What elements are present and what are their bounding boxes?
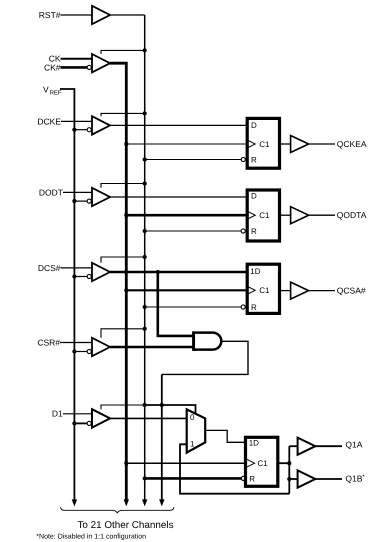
bubble DCS# ref input [87,274,91,278]
node junction RST/CSR#-top [143,327,147,331]
wire CSR# buffer top to RST net [101,329,145,338]
wire DODT buffer top to RST net [101,184,145,188]
wire DCKE buffer top to RST net [101,113,145,116]
wire AND output down to mux line [161,374,163,499]
svg-text:CSR#: CSR# [37,337,60,347]
AND gate G1 [192,331,195,350]
wire CK# input [61,66,88,69]
svg-text:1D: 1D [250,267,260,276]
bubble DODT ref input [87,199,91,203]
wire D1 buffer output to mux 0 input [110,417,187,419]
buffer U3 DCKE [92,116,110,134]
buffer U4 DODT [92,188,110,206]
svg-text:D1: D1 [52,409,63,419]
wire to QODTA label [309,214,335,216]
wire DCS# buffer top to RST net [101,257,145,263]
buffer U6 CSR# [92,338,110,356]
wire RST# buffer output to vertical [110,14,145,16]
svg-text:CK#: CK# [44,62,61,72]
wire to Q1A buffer [289,445,297,447]
svg-text:REF: REF [50,90,62,97]
wire RST net to mux top [145,405,196,414]
svg-text:D: D [251,192,257,201]
svg-text:R: R [251,156,257,165]
svg-text:Q1B*: Q1B* [345,473,365,483]
node junction RST/CK-top [143,48,147,52]
clock symbol FF1 [248,140,256,148]
node junction RST/DODT-top [143,181,147,185]
svg-text:To 21 Other Channels: To 21 Other Channels [77,520,173,531]
svg-text:1D: 1D [249,438,259,447]
node junction RST/DCS#-top [143,255,147,259]
node junction AND/mux select [160,403,164,407]
svg-text:C1: C1 [259,211,270,220]
svg-text:C1: C1 [259,286,270,295]
node VREF junction DCS# [72,274,76,278]
wire DCS# input [61,267,93,269]
buffer Q1B output [298,470,316,487]
bubble FF4 R input [241,476,245,480]
wire DODT buffer output to FF2 D [110,196,247,198]
wire DODT input [63,191,92,193]
svg-text:0: 0 [190,413,195,422]
wire DCKE input [61,120,92,122]
wire mux output to FF4 D [205,430,245,442]
wire D1 input [63,413,92,415]
wire FF1 output [280,143,291,145]
wire DCS# down to AND gate [158,272,194,336]
flip-flop FF4 Q1 [246,437,278,486]
wire RST to FF4 R [145,477,242,480]
arrowhead RST to other channels [142,499,147,506]
svg-text:Q1A: Q1A [345,440,362,450]
wire CK buffer output vertical clock net [110,63,126,499]
node Q junction [287,461,291,465]
svg-text:DCS#: DCS# [38,263,61,273]
buffer U5 DCS# [92,263,110,281]
wire CSR# buffer output to AND [110,346,194,349]
svg-text:R: R [249,475,255,484]
wire RST# input [61,14,93,16]
wire VREF to DCKE bubble [74,129,87,131]
bubble D1 ref input [87,421,91,425]
node VREF junction CSR# [72,349,76,353]
wire DCS# buffer output to FF3 D [110,271,247,274]
wire to Q1A label [315,445,342,447]
wire VREF vertical net [60,89,74,500]
svg-text:*Note: Disabled in 1:1 configu: *Note: Disabled in 1:1 configuration [36,532,146,540]
node VREF junction DODT [72,199,76,203]
bubble FF2 R input [241,229,245,233]
arrowhead VREF to other channels [72,499,77,506]
buffer U2 CK/CK# [92,54,110,72]
wire FF3 output [280,290,291,292]
svg-text:QCKEA: QCKEA [337,139,367,149]
bubble FF3 R input [241,305,245,309]
wire CK to FF3 C1 [126,289,247,291]
svg-text:C1: C1 [259,140,270,149]
bubble DCKE ref input [87,128,91,132]
wire to Q1B label [315,478,342,480]
wire D1 buffer top to RST net [101,405,145,409]
flip-flop FF3 QCSA# [247,264,279,313]
wire FF4 output [278,462,290,464]
buffer U7 D1 [92,409,110,427]
wire VREF to DODT bubble [74,200,87,202]
buffer Q1A output [298,438,316,455]
wire CK buffer top to RST net [101,50,145,54]
node CK junction FF1 [124,142,128,146]
node VREF junction DCKE [72,128,76,132]
wire RST to FF3 R [145,306,242,308]
node RST junction FF2 R [143,229,147,233]
mux M1 [187,409,206,452]
wire VREF to DCS# bubble [74,276,87,278]
svg-text:QODTA: QODTA [337,210,367,220]
node DCS# fanout junction [156,270,160,274]
svg-text:1: 1 [190,439,195,448]
buffer QODTA output [291,207,309,224]
node RST junction FF1 R [143,157,147,161]
wire VREF to CSR# bubble [74,351,87,353]
node junction RST/D1-top [143,403,147,407]
node Q1B junction [287,477,291,481]
flip-flop FF1 QCKEA [247,118,279,168]
wire DCKE buffer output to FF1 D [110,124,247,126]
wire to Q1B buffer [289,478,297,480]
wire CK to FF1 C1 [126,143,247,145]
wire CK input [61,58,93,60]
buffer QCKEA output [291,136,309,153]
wire RST to FF1 R [145,159,242,161]
wire FF2 output [280,214,291,216]
clock symbol FF4 [247,459,255,467]
wire AND output loop [162,341,248,374]
buffer U1 RST# [92,6,110,24]
svg-text:R: R [251,303,257,312]
buffer QCSA# output [291,282,309,299]
bubble CSR# ref input [87,349,91,353]
svg-text:DCKE: DCKE [37,116,61,126]
wire mux 1 input feedback [180,444,289,493]
svg-text:R: R [251,227,257,236]
node CK junction FF3 [124,288,128,292]
bubble CK# input [87,65,91,69]
wire VREF to D1 bubble [74,422,87,424]
clock symbol FF3 [248,287,256,295]
wire Q fanout vertical [288,446,290,494]
svg-text:RST#: RST# [39,10,61,20]
clock symbol FF2 [248,211,256,219]
brace to other channels [61,507,175,513]
wire to QCKEA label [309,143,335,145]
arrowhead AND net to other channels [159,499,164,506]
svg-text:C1: C1 [258,459,269,468]
svg-text:QCSA#: QCSA# [337,286,366,296]
svg-text:DODT: DODT [39,187,63,197]
node CK junction FF4 [124,461,128,465]
wire CK to FF2 C1 [126,214,247,217]
node junction RST/DCKE-top [143,111,147,115]
svg-text:D: D [251,121,257,130]
bubble FF1 R input [241,157,245,161]
svg-text:V: V [43,85,49,95]
wire to QCSA# label [309,290,335,292]
node VREF junction D1 [72,421,76,425]
wire RST# vertical distribution net [144,15,146,500]
flip-flop FF2 QODTA [247,190,279,241]
node RST junction FF4 R [143,476,147,480]
node CK junction FF2 [124,213,128,217]
wire CSR# input [60,342,92,344]
arrowhead CK to other channels [124,499,129,506]
wire CK to FF4 C1 [126,462,245,464]
node RST junction FF3 R [143,305,147,309]
wire RST to FF2 R [145,230,242,232]
